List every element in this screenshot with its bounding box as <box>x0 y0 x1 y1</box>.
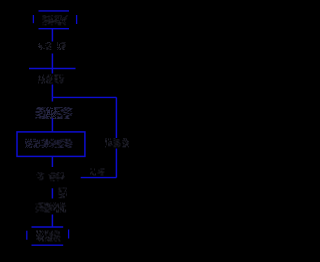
text in start terminator <box>43 15 69 25</box>
wire: loop-return right vertical lower <box>115 149 117 178</box>
text in process box <box>25 139 73 148</box>
text in end terminator <box>36 231 61 242</box>
terminator: start <box>33 11 76 29</box>
text: output label <box>36 203 67 213</box>
text: condition label <box>36 172 44 180</box>
text: branch label row2 <box>59 193 67 198</box>
wire: junction stub down <box>51 97 53 101</box>
wire: big label to process box <box>51 119 53 132</box>
process box <box>17 132 85 157</box>
text: small label above return line <box>90 169 105 176</box>
wire: loop-return horizontal top <box>52 96 116 98</box>
wire: loop-return right vertical upper <box>115 97 117 138</box>
text: step1 label part2 <box>57 42 66 50</box>
text: loop label (3 chars) <box>105 138 129 147</box>
text: big label <box>36 107 73 119</box>
wire: step1 to separator <box>51 54 53 69</box>
wire: step2 down to loop junction <box>51 85 53 98</box>
wire: box to condition <box>51 156 53 167</box>
wire: start to step1 <box>51 29 53 42</box>
text: step1 label <box>38 42 51 50</box>
terminator: end <box>27 227 69 245</box>
wire: loop-return horizontal bottom <box>81 177 117 179</box>
wire: condition to output <box>51 188 53 198</box>
text: branch label row1 <box>59 188 67 193</box>
wire: horizontal separator <box>29 68 76 70</box>
wire: stub below separator <box>51 69 53 74</box>
wire: output to end terminator <box>51 215 53 228</box>
text: step2 label part2 <box>55 75 65 84</box>
text: step2 label <box>38 75 53 84</box>
text: condition label2 <box>49 172 65 181</box>
